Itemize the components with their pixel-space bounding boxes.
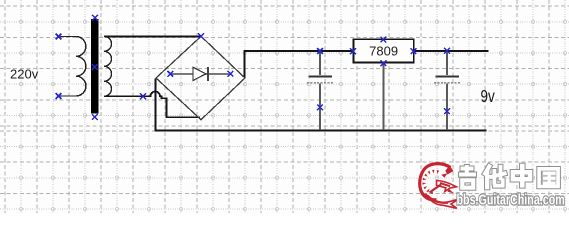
svg-text:7809: 7809: [369, 44, 398, 59]
svg-text:220v: 220v: [10, 67, 39, 82]
svg-text:9v: 9v: [481, 87, 495, 106]
svg-text:bbs.GuitarChina.com: bbs.GuitarChina.com: [457, 191, 565, 208]
